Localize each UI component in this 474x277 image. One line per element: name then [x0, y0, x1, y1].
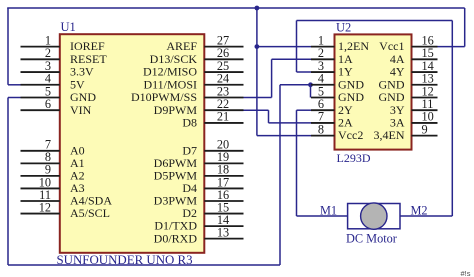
- svg-text:VIN: VIN: [70, 103, 92, 117]
- svg-text:D8: D8: [182, 116, 197, 130]
- svg-text:9: 9: [422, 122, 428, 136]
- svg-text:D0/RXD: D0/RXD: [154, 231, 198, 245]
- svg-text:M2: M2: [411, 203, 428, 217]
- svg-text:#!s: #!s: [461, 269, 471, 277]
- svg-text:3,4EN: 3,4EN: [374, 128, 405, 142]
- svg-text:6: 6: [45, 97, 51, 111]
- svg-text:U1: U1: [61, 20, 76, 34]
- svg-text:M1: M1: [320, 203, 337, 217]
- svg-text:Vcc2: Vcc2: [338, 128, 363, 142]
- svg-text:DC Motor: DC Motor: [346, 232, 397, 246]
- svg-text:U2: U2: [336, 21, 351, 35]
- svg-text:L293D: L293D: [337, 151, 371, 165]
- svg-text:SUNFOUNDER UNO R3: SUNFOUNDER UNO R3: [57, 253, 193, 267]
- svg-text:A5/SCL: A5/SCL: [70, 206, 110, 220]
- svg-text:21: 21: [217, 110, 229, 124]
- svg-text:12: 12: [39, 200, 51, 214]
- svg-text:13: 13: [217, 225, 229, 239]
- svg-text:8: 8: [318, 122, 324, 136]
